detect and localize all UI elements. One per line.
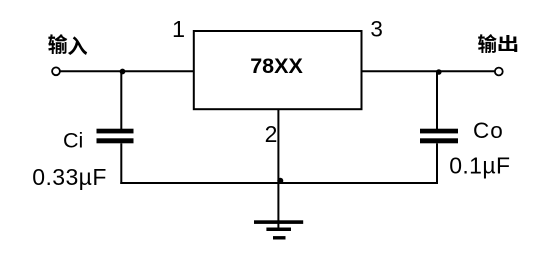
- regulator U1 box: [194, 31, 362, 109]
- wire Ci bottom lead: [120, 143, 122, 184]
- svg-text:Co: Co: [473, 118, 504, 143]
- svg-text:0.33µF: 0.33µF: [32, 164, 106, 190]
- node input junction: [120, 69, 126, 75]
- capacitor C1 Ci plates: [97, 129, 134, 144]
- wire input horizontal: [61, 70, 195, 72]
- label 输入: [48, 34, 87, 55]
- svg-text:3: 3: [370, 17, 383, 42]
- wire output horizontal: [362, 70, 495, 72]
- svg-text:1: 1: [172, 16, 185, 42]
- wire Co top lead: [436, 71, 438, 129]
- wire bottom rail: [120, 182, 438, 184]
- svg-text:2: 2: [265, 121, 278, 147]
- label 输出: [478, 34, 517, 53]
- terminal input circle: [52, 67, 60, 75]
- svg-text:0.1µF: 0.1µF: [449, 152, 510, 178]
- wire pin 2 vertical: [277, 109, 279, 229]
- svg-text:78XX: 78XX: [250, 54, 303, 78]
- ground symbol: [254, 220, 303, 239]
- svg-text:Ci: Ci: [63, 129, 83, 153]
- capacitor C2 Co plates: [420, 129, 458, 144]
- wire Co bottom lead: [436, 143, 438, 184]
- terminal output circle: [495, 68, 503, 76]
- wire Ci top lead: [120, 71, 122, 129]
- node ground junction: [277, 178, 283, 184]
- node output junction: [436, 69, 442, 75]
